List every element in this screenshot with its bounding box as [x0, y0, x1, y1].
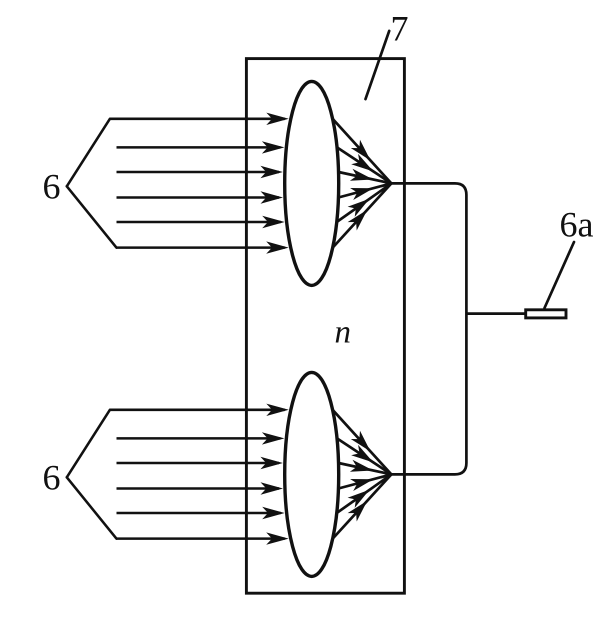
- connector from top focal point: horizontal then rounded corner down: [391, 183, 466, 474]
- converging ray 1 top with arrowhead: [333, 119, 392, 184]
- incoming ray 5 top with arrowhead: [117, 221, 281, 224]
- converging ray 3 top with arrowhead: [339, 172, 392, 183]
- incoming ray 4 top with arrowhead: [117, 196, 280, 199]
- incoming ray 4 bottom with arrowhead: [117, 487, 280, 490]
- converging ray 3 bottom with arrowhead: [339, 463, 392, 474]
- leader line for label 6a: [545, 242, 575, 308]
- incoming ray 2 bottom with arrowhead: [117, 437, 281, 440]
- bracket upper arm top: [67, 119, 110, 187]
- tap wire to element 6a: [466, 312, 526, 315]
- optical body rectangle 7: [246, 59, 404, 594]
- incoming ray 3 top with arrowhead: [117, 171, 279, 174]
- svg-text:7: 7: [391, 9, 409, 49]
- converging ray 5 top with arrowhead: [337, 183, 392, 222]
- incoming ray 6 bottom with arrowhead: [116, 537, 284, 540]
- lens bottom: [285, 372, 339, 576]
- bracket upper arm bottom: [67, 410, 110, 478]
- converging ray 4 bottom with arrowhead: [338, 474, 391, 488]
- converging ray 4 top with arrowhead: [338, 183, 391, 197]
- converging ray 1 bottom with arrowhead: [333, 410, 392, 475]
- leader line for label 7: [366, 31, 390, 99]
- lens top: [285, 81, 339, 285]
- converging ray 5 bottom with arrowhead: [337, 474, 392, 513]
- bracket lower arm top: [67, 186, 117, 247]
- svg-text:6a: 6a: [560, 205, 594, 245]
- bracket lower arm bottom: [67, 477, 117, 538]
- output element 6a (small bar): [526, 310, 566, 318]
- incoming ray 1 bottom with arrowhead: [110, 409, 285, 412]
- converging ray 2 top with arrowhead: [337, 147, 391, 183]
- converging ray 6 top with arrowhead: [333, 183, 392, 247]
- converging ray 2 bottom with arrowhead: [337, 438, 391, 474]
- incoming ray 3 bottom with arrowhead: [117, 462, 279, 465]
- svg-text:6: 6: [43, 166, 61, 206]
- incoming ray 2 top with arrowhead: [117, 146, 281, 149]
- incoming ray 1 top with arrowhead: [110, 118, 285, 121]
- svg-text:6: 6: [43, 457, 61, 497]
- incoming ray 5 bottom with arrowhead: [117, 512, 281, 515]
- converging ray 6 bottom with arrowhead: [333, 474, 392, 538]
- incoming ray 6 top with arrowhead: [116, 246, 284, 249]
- svg-text:n: n: [335, 315, 352, 351]
